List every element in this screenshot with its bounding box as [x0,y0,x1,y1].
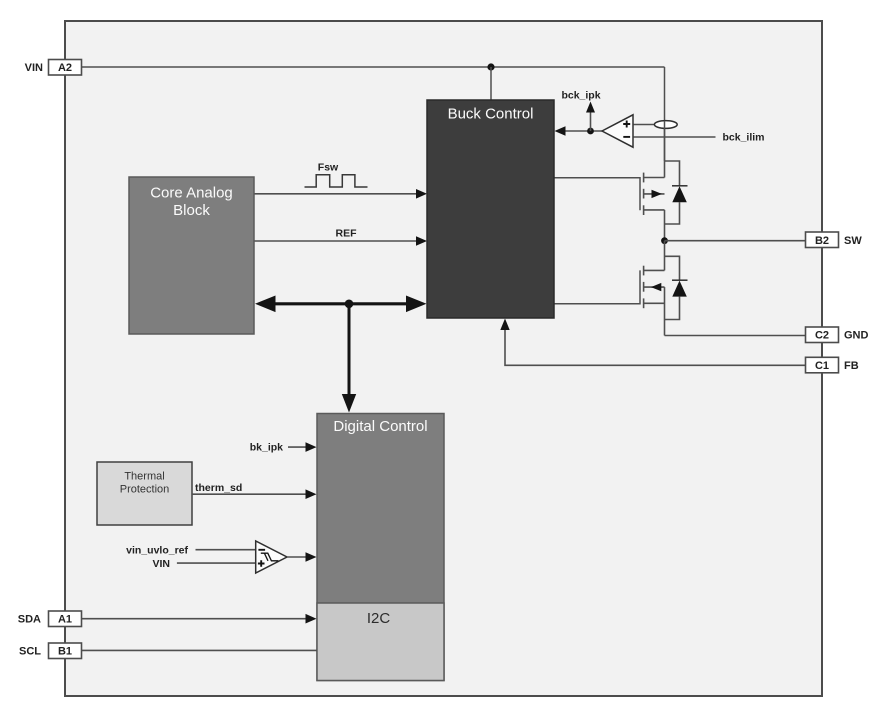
svg-text:SW: SW [844,235,862,247]
svg-text:VIN: VIN [25,62,43,74]
wire bck_ipk output to Buck [565,130,603,132]
svg-text:Thermal: Thermal [124,471,164,483]
wire vin_uvlo_ref input [196,549,257,551]
wire REF [254,240,416,242]
current sense ellipse [654,121,677,129]
wire VIN to Buck Control [490,67,492,100]
svg-text:REF: REF [336,228,358,240]
node bus junction [345,300,354,309]
svg-text:therm_sd: therm_sd [195,482,242,494]
node bck_ipk junction [587,128,594,135]
svg-text:Protection: Protection [120,484,170,496]
wire SDA [82,618,307,620]
svg-text:A2: A2 [58,62,72,74]
wire Fsw [254,193,416,195]
wire VIN rail vertical [664,67,666,161]
svg-text:vin_uvlo_ref: vin_uvlo_ref [126,545,188,557]
wire gate from Buck [554,178,640,210]
block Buck Control [427,100,554,318]
pin B1 [49,643,82,659]
wire bck_ipk up arrow [590,112,592,131]
diode D1 body diode high-side [665,161,688,224]
svg-text:C2: C2 [815,330,829,342]
svg-text:Fsw: Fsw [318,162,339,174]
pin B2 [806,232,839,248]
wire gate from Buck [554,270,640,303]
block Thermal Protection [97,462,192,525]
svg-text:Buck Control: Buck Control [448,106,534,123]
svg-text:SDA: SDA [18,614,41,626]
svg-text:FB: FB [844,360,859,372]
wire comparator output [288,556,307,558]
svg-text:VIN: VIN [152,558,170,570]
wire SW down to low-side [664,241,666,271]
wire VIN comparator input [177,562,257,564]
svg-text:B2: B2 [815,235,829,247]
svg-text:A1: A1 [58,614,72,626]
wire bk_ipk [288,446,306,448]
pin C1 [806,357,839,373]
transistor M2 low-side NMOS [554,266,665,336]
wire SW to pin B2 [665,240,806,242]
svg-text:C1: C1 [815,360,829,372]
block Core Analog [129,177,254,334]
node VIN junction [487,63,494,70]
hysteresis glyph [261,553,279,561]
svg-text:Core Analog: Core Analog [150,185,233,202]
transistor M1 high-side NMOS [554,161,665,241]
pin A1 [49,611,82,627]
wire GND to pin C2 [665,335,806,337]
waveform Fsw pulse glyph [305,175,368,187]
wire comparator plus input [634,124,656,126]
svg-text:Digital Control: Digital Control [333,418,427,435]
wire bus Core-Buck bidirectional [272,302,410,305]
wire FB from pin C1 [505,330,806,365]
wire comparator minus input bck_ilim [634,136,716,138]
pin C2 [806,327,839,343]
svg-text:Block: Block [173,202,210,219]
diode D2 body diode low-side [665,256,688,319]
op-amp UVLO comparator [256,541,287,573]
pin A2 [49,60,82,76]
wire SCL [82,649,318,651]
wire rail through ellipse [664,121,666,161]
wire bus to Digital Control [348,304,351,396]
block I2C [317,603,444,681]
wire VIN rail top [82,66,665,68]
svg-text:GND: GND [844,330,869,342]
svg-text:bk_ipk: bk_ipk [250,442,283,454]
svg-text:bck_ipk: bck_ipk [561,90,600,102]
svg-text:bck_ilim: bck_ilim [723,132,765,144]
block Digital Control [317,414,444,681]
wire therm_sd [192,493,306,495]
op-amp current limit comparator [602,115,633,147]
svg-text:I2C: I2C [367,610,391,627]
svg-text:B1: B1 [58,646,72,658]
node SW junction [661,237,668,244]
svg-text:SCL: SCL [19,646,41,658]
